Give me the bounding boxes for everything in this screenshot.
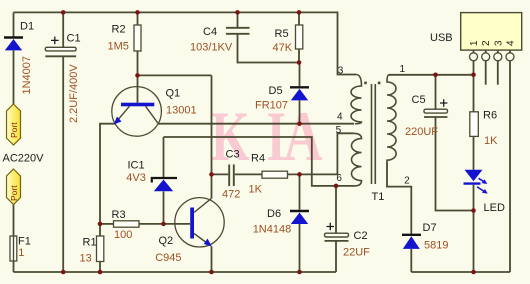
- USB pin 1: [470, 53, 478, 61]
- svg-text:USB: USB: [430, 32, 453, 44]
- svg-text:1: 1: [18, 247, 24, 259]
- junction Q2 emitter bottom rail: [209, 270, 214, 275]
- svg-text:220UF: 220UF: [405, 126, 438, 138]
- wire R5 bottom lead to snubber node: [298, 49, 300, 63]
- wire IC1 cathode lead: [163, 137, 165, 178]
- junction C1 top rail: [61, 10, 66, 15]
- wire bottom rail (primary side): [14, 271, 337, 273]
- port P2 AC input: [7, 169, 21, 205]
- wire C1 bottom lead: [62, 56, 64, 272]
- svg-text:Port: Port: [9, 185, 19, 201]
- wire USB pin4 to secondary ground: [509, 61, 511, 272]
- resistor R4: [262, 171, 288, 178]
- wire R2 bottom / Q1 base lead: [137, 51, 139, 103]
- resistor R1: [97, 236, 104, 262]
- svg-text:2: 2: [481, 40, 492, 46]
- T1 feedback winding pins 5-6: [352, 133, 362, 186]
- svg-text:IC1: IC1: [128, 160, 145, 172]
- svg-text:1K: 1K: [249, 184, 263, 196]
- diode D1: [4, 38, 23, 51]
- resistor R2: [134, 25, 141, 51]
- svg-text:D7: D7: [423, 222, 437, 234]
- svg-text:R4: R4: [251, 153, 265, 165]
- USB pin 2: [482, 53, 490, 61]
- wire D7 anode lead: [410, 249, 412, 272]
- wire IC1 anode lead: [163, 192, 165, 224]
- wire pin6 stub: [336, 185, 354, 187]
- svg-text:Q1: Q1: [166, 88, 181, 100]
- svg-text:1M5: 1M5: [108, 40, 129, 52]
- T1 core: [371, 84, 373, 184]
- junction D5 anode on primary wire: [297, 121, 302, 126]
- wire pin6 node to C2: [335, 186, 337, 233]
- svg-text:1: 1: [400, 64, 406, 75]
- svg-text:D1: D1: [20, 21, 34, 33]
- wire secondary pin1 rail: [389, 74, 474, 76]
- wire R5 top lead: [298, 12, 300, 25]
- wire D1 cathode lead: [13, 12, 15, 37]
- svg-text:4: 4: [506, 40, 517, 46]
- wire C2 bottom lead: [335, 241, 337, 272]
- wire feedback column down to Q2 collector: [211, 75, 213, 198]
- svg-text:3: 3: [338, 66, 344, 77]
- svg-text:R5: R5: [275, 28, 289, 40]
- svg-text:1K: 1K: [484, 135, 498, 147]
- USB pin 4: [506, 53, 514, 61]
- svg-text:1: 1: [469, 40, 480, 46]
- junction LED column ground rail: [471, 270, 476, 275]
- svg-text:5: 5: [336, 125, 342, 136]
- wire feedback line C3 left: [212, 173, 229, 175]
- junction IC1/Q2 base node: [161, 222, 166, 227]
- wire port2 to F1 to bottom rail: [13, 205, 15, 273]
- junction C3 / Q2 collector node: [209, 172, 214, 177]
- svg-text:5819: 5819: [424, 239, 448, 251]
- T1 secondary winding pins 1-2: [387, 75, 396, 162]
- svg-text:100: 100: [114, 229, 132, 241]
- svg-text:R2: R2: [112, 24, 126, 36]
- diode D5: [290, 87, 309, 100]
- T1 primary winding pins 3-4: [351, 75, 361, 124]
- resistor R3: [114, 221, 140, 227]
- wire R3 left lead: [100, 223, 114, 225]
- wire D5 cathode lead: [299, 63, 301, 87]
- wire USB pin2 stub: [485, 61, 487, 85]
- wire R6 to LED: [473, 136, 475, 169]
- svg-text:F1: F1: [18, 236, 31, 248]
- svg-text:LED: LED: [484, 202, 505, 214]
- svg-text:R3: R3: [112, 209, 126, 221]
- wire bottom rail (secondary side): [411, 271, 510, 273]
- USB pin 3: [494, 53, 502, 61]
- junction Q1 base node: [135, 73, 140, 78]
- svg-text:R6: R6: [483, 110, 497, 122]
- wire C5 bottom to LED node: [436, 117, 474, 211]
- wire D5 anode lead: [299, 101, 301, 124]
- svg-text:22UF: 22UF: [343, 247, 370, 259]
- svg-text:13001: 13001: [166, 104, 197, 116]
- wire C4 top lead: [237, 12, 239, 27]
- junction C4 top rail: [235, 10, 240, 15]
- wire IC1 to pin6 net: [164, 137, 337, 186]
- wire C5 top lead: [435, 75, 437, 109]
- junction LED cathode node: [471, 208, 476, 213]
- wire transformer pin2 to D7: [387, 162, 411, 235]
- svg-text:3: 3: [493, 40, 504, 46]
- capacitor C2: [325, 223, 349, 241]
- wire C4 bottom to snubber node: [238, 34, 300, 63]
- wire USB pin3 stub: [497, 61, 499, 85]
- svg-text:47K: 47K: [273, 42, 293, 54]
- port P1 AC input: [7, 104, 21, 145]
- svg-text:1N4007: 1N4007: [21, 56, 33, 95]
- junction C5 +5V rail: [433, 73, 438, 78]
- junction pin6/C2 node: [334, 184, 339, 189]
- fuse F1: [10, 236, 17, 261]
- junction R1 bottom rail: [98, 270, 103, 275]
- T1 phase dot primary: [364, 82, 367, 85]
- svg-text:2.2UF/400V: 2.2UF/400V: [68, 64, 80, 123]
- wire R4 right to pin5: [288, 133, 354, 174]
- LED: [464, 170, 488, 194]
- wire Q1 base node to feedback column: [138, 74, 212, 76]
- svg-text:AC220V: AC220V: [3, 152, 45, 164]
- resistor R6: [470, 112, 479, 137]
- svg-text:C3: C3: [226, 149, 240, 161]
- wire D6 cathode lead: [299, 174, 301, 209]
- svg-text:C945: C945: [155, 252, 181, 264]
- diode D7: [402, 235, 421, 249]
- junction C1 bottom rail: [61, 270, 66, 275]
- svg-text:13: 13: [80, 253, 92, 265]
- wire R1 bottom lead: [99, 262, 101, 273]
- svg-text:Port: Port: [9, 122, 19, 138]
- wire LED cathode to bottom rail: [473, 185, 475, 272]
- transformer T1: [351, 75, 396, 186]
- diode D6: [290, 211, 309, 224]
- junction R1/R3 node: [98, 222, 103, 227]
- junction D6 bottom rail: [297, 270, 302, 275]
- svg-text:D6: D6: [267, 208, 281, 220]
- watermark KIA: [211, 97, 323, 176]
- wire D1 anode to port: [13, 51, 15, 105]
- svg-text:T1: T1: [372, 191, 385, 203]
- wire USB pin1: [473, 61, 475, 75]
- svg-text:103/1KV: 103/1KV: [190, 42, 233, 54]
- junction R2 top rail: [135, 10, 140, 15]
- wire D6 anode lead: [299, 224, 301, 272]
- wire R6 top lead: [473, 75, 475, 112]
- junction R4/D6/pin5 node: [297, 172, 302, 177]
- wire Q1 emitter to R1 column: [100, 124, 115, 236]
- junction R5 top rail: [297, 10, 302, 15]
- wire top rail: [14, 12, 357, 74]
- wire Q2 emitter to bottom rail: [211, 246, 213, 272]
- wire Q1 collector to transformer pin4: [158, 123, 354, 125]
- capacitor C5: [424, 99, 448, 117]
- wire USB pin stubs above circles: [473, 50, 475, 53]
- resistor R5: [296, 25, 303, 49]
- svg-text:C2: C2: [354, 230, 368, 242]
- zener IC1: [152, 178, 177, 191]
- junction USB pin1 +5V rail: [471, 73, 476, 78]
- capacitor C1: [45, 37, 76, 57]
- wire R2 top lead: [137, 12, 139, 25]
- T1 phase dot secondary: [378, 82, 381, 85]
- svg-text:C4: C4: [203, 26, 217, 38]
- wire R3 right to Q2 base: [139, 223, 190, 225]
- capacitor C3: [229, 165, 234, 187]
- svg-text:6: 6: [336, 173, 342, 184]
- transistor Q2: [175, 198, 224, 247]
- svg-text:1N4148: 1N4148: [253, 223, 292, 235]
- svg-text:D5: D5: [269, 85, 283, 97]
- wire C1 top lead: [62, 12, 64, 47]
- junction snubber node C4/R5/D5: [297, 60, 302, 65]
- wire C3 right to R4: [235, 173, 262, 175]
- svg-text:C5: C5: [412, 94, 426, 106]
- capacitor C4: [226, 28, 250, 34]
- svg-text:R1: R1: [83, 237, 97, 249]
- transistor Q1: [112, 87, 162, 137]
- svg-text:4V3: 4V3: [126, 172, 146, 184]
- svg-text:FR107: FR107: [255, 99, 288, 111]
- USB connector J1: [461, 13, 522, 61]
- svg-text:Q2: Q2: [159, 235, 174, 247]
- svg-text:472: 472: [222, 189, 240, 201]
- svg-text:4: 4: [337, 112, 343, 123]
- svg-text:2: 2: [404, 176, 410, 187]
- svg-text:C1: C1: [67, 33, 81, 45]
